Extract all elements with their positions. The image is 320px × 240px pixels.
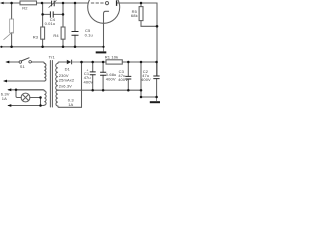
resistor R4 xyxy=(62,3,64,27)
tube V1 anode bar xyxy=(116,0,117,6)
wire C6 branch xyxy=(102,62,104,90)
svg-text:400V: 400V xyxy=(106,77,116,82)
transformer Tr1 core xyxy=(50,61,52,108)
arrow heater out bottom xyxy=(7,104,11,107)
capacitor C4 plates xyxy=(50,11,53,17)
junction dots top wire xyxy=(10,2,13,5)
switch S1 lever xyxy=(21,58,29,61)
svg-text:R4: R4 xyxy=(53,33,59,38)
tube V1 envelope xyxy=(88,0,120,23)
capacitor C5 plates xyxy=(72,32,79,36)
wire C1 branch xyxy=(92,62,94,90)
variable capacitor arrow xyxy=(49,0,57,7)
transformer Tr1 heater winding left xyxy=(12,90,46,106)
junction dots PSU line xyxy=(80,61,83,64)
svg-text:400V: 400V xyxy=(84,79,94,84)
svg-text:25mAx2: 25mAx2 xyxy=(59,78,75,83)
wire switch to transformer xyxy=(9,62,45,63)
wire secondary bottom to riser xyxy=(59,106,82,108)
transformer Tr1 secondary winding xyxy=(56,62,59,107)
wire right rail down xyxy=(156,26,158,76)
wire top grid line xyxy=(1,2,88,4)
transformer Tr1 primary winding xyxy=(43,63,46,81)
node bus ground wire xyxy=(1,46,103,48)
wire C2 branch top xyxy=(156,62,158,76)
svg-text:400V: 400V xyxy=(118,77,128,82)
capacitor C2 plates xyxy=(153,76,159,79)
wire anode to top-right xyxy=(117,3,157,26)
arrow antenna xyxy=(0,2,3,5)
variable capacitor C plates xyxy=(52,1,55,7)
svg-text:1A: 1A xyxy=(68,102,73,107)
lamp La1 xyxy=(21,93,30,102)
capacitor C4 wire xyxy=(43,3,63,27)
tube V1 cathode hook and lead xyxy=(104,11,109,47)
svg-text:1A: 1A xyxy=(2,96,7,101)
junction dots C4 line xyxy=(41,13,44,16)
svg-text:R1 10k: R1 10k xyxy=(105,54,118,59)
ground 1 stub xyxy=(103,47,105,52)
capacitor C1 plates xyxy=(90,72,96,75)
tube V1 grid (dashed) xyxy=(91,2,104,4)
junction dot R5 corner xyxy=(156,25,159,28)
arrow mains N xyxy=(3,80,7,83)
junction dots bottom xyxy=(39,96,42,99)
svg-text:R2: R2 xyxy=(22,5,28,10)
wire heater bottom left xyxy=(9,105,44,107)
junction dots bus xyxy=(0,46,2,48)
potentiometer arrow xyxy=(4,32,13,40)
wire mains return xyxy=(7,80,44,82)
diode D1 xyxy=(67,60,72,65)
svg-text:R3: R3 xyxy=(33,34,39,39)
svg-text:Tr1: Tr1 xyxy=(49,55,56,60)
wire secondary middle tap rail xyxy=(58,89,141,91)
ground 2 stub xyxy=(156,97,158,101)
arrow heater out top xyxy=(7,88,11,91)
svg-text:2x6.3V: 2x6.3V xyxy=(59,84,72,89)
svg-text:D1: D1 xyxy=(65,66,71,71)
resistor R1 xyxy=(106,60,122,64)
capacitor C5 wire xyxy=(74,3,76,47)
tube V1 cathode circle xyxy=(105,1,108,4)
wire riser D1 node down xyxy=(81,62,83,107)
svg-text:68k: 68k xyxy=(131,13,138,18)
capacitor C3 plates xyxy=(125,76,131,79)
svg-text:0.1u: 0.1u xyxy=(85,32,93,37)
junction dots rails xyxy=(15,89,18,92)
svg-text:400V: 400V xyxy=(141,77,151,82)
arrow mains L xyxy=(5,61,9,64)
wire heater mid riser xyxy=(141,62,157,97)
resistor R2 xyxy=(20,1,37,5)
resistor R3 xyxy=(41,27,45,39)
resistor R5 xyxy=(140,3,142,7)
wire heater rail left xyxy=(9,89,44,91)
svg-text:0.01u: 0.01u xyxy=(45,21,56,26)
capacitor C6 plates xyxy=(100,72,106,75)
ground 2 bar xyxy=(150,101,160,103)
ground 1 bar xyxy=(96,51,107,53)
potentiometer P1 xyxy=(11,3,13,19)
svg-text:S1: S1 xyxy=(20,64,26,69)
switch S1 contacts xyxy=(19,61,22,64)
wire PSU output line xyxy=(82,61,157,63)
svg-text:+: + xyxy=(86,68,88,72)
wire C3 branch xyxy=(127,62,129,90)
